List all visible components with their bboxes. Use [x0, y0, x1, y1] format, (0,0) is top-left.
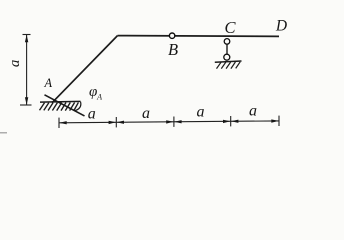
svg-text:a: a [197, 104, 205, 121]
svg-text:D: D [275, 17, 287, 34]
svg-text:C: C [224, 18, 236, 37]
svg-text:A: A [44, 76, 53, 90]
svg-text:a: a [249, 102, 257, 119]
svg-text:a: a [88, 106, 96, 123]
svg-text:A: A [96, 93, 102, 102]
svg-text:a: a [7, 60, 23, 68]
svg-text:a: a [142, 105, 150, 122]
svg-text:φ: φ [89, 84, 97, 100]
svg-text:B: B [168, 40, 178, 59]
